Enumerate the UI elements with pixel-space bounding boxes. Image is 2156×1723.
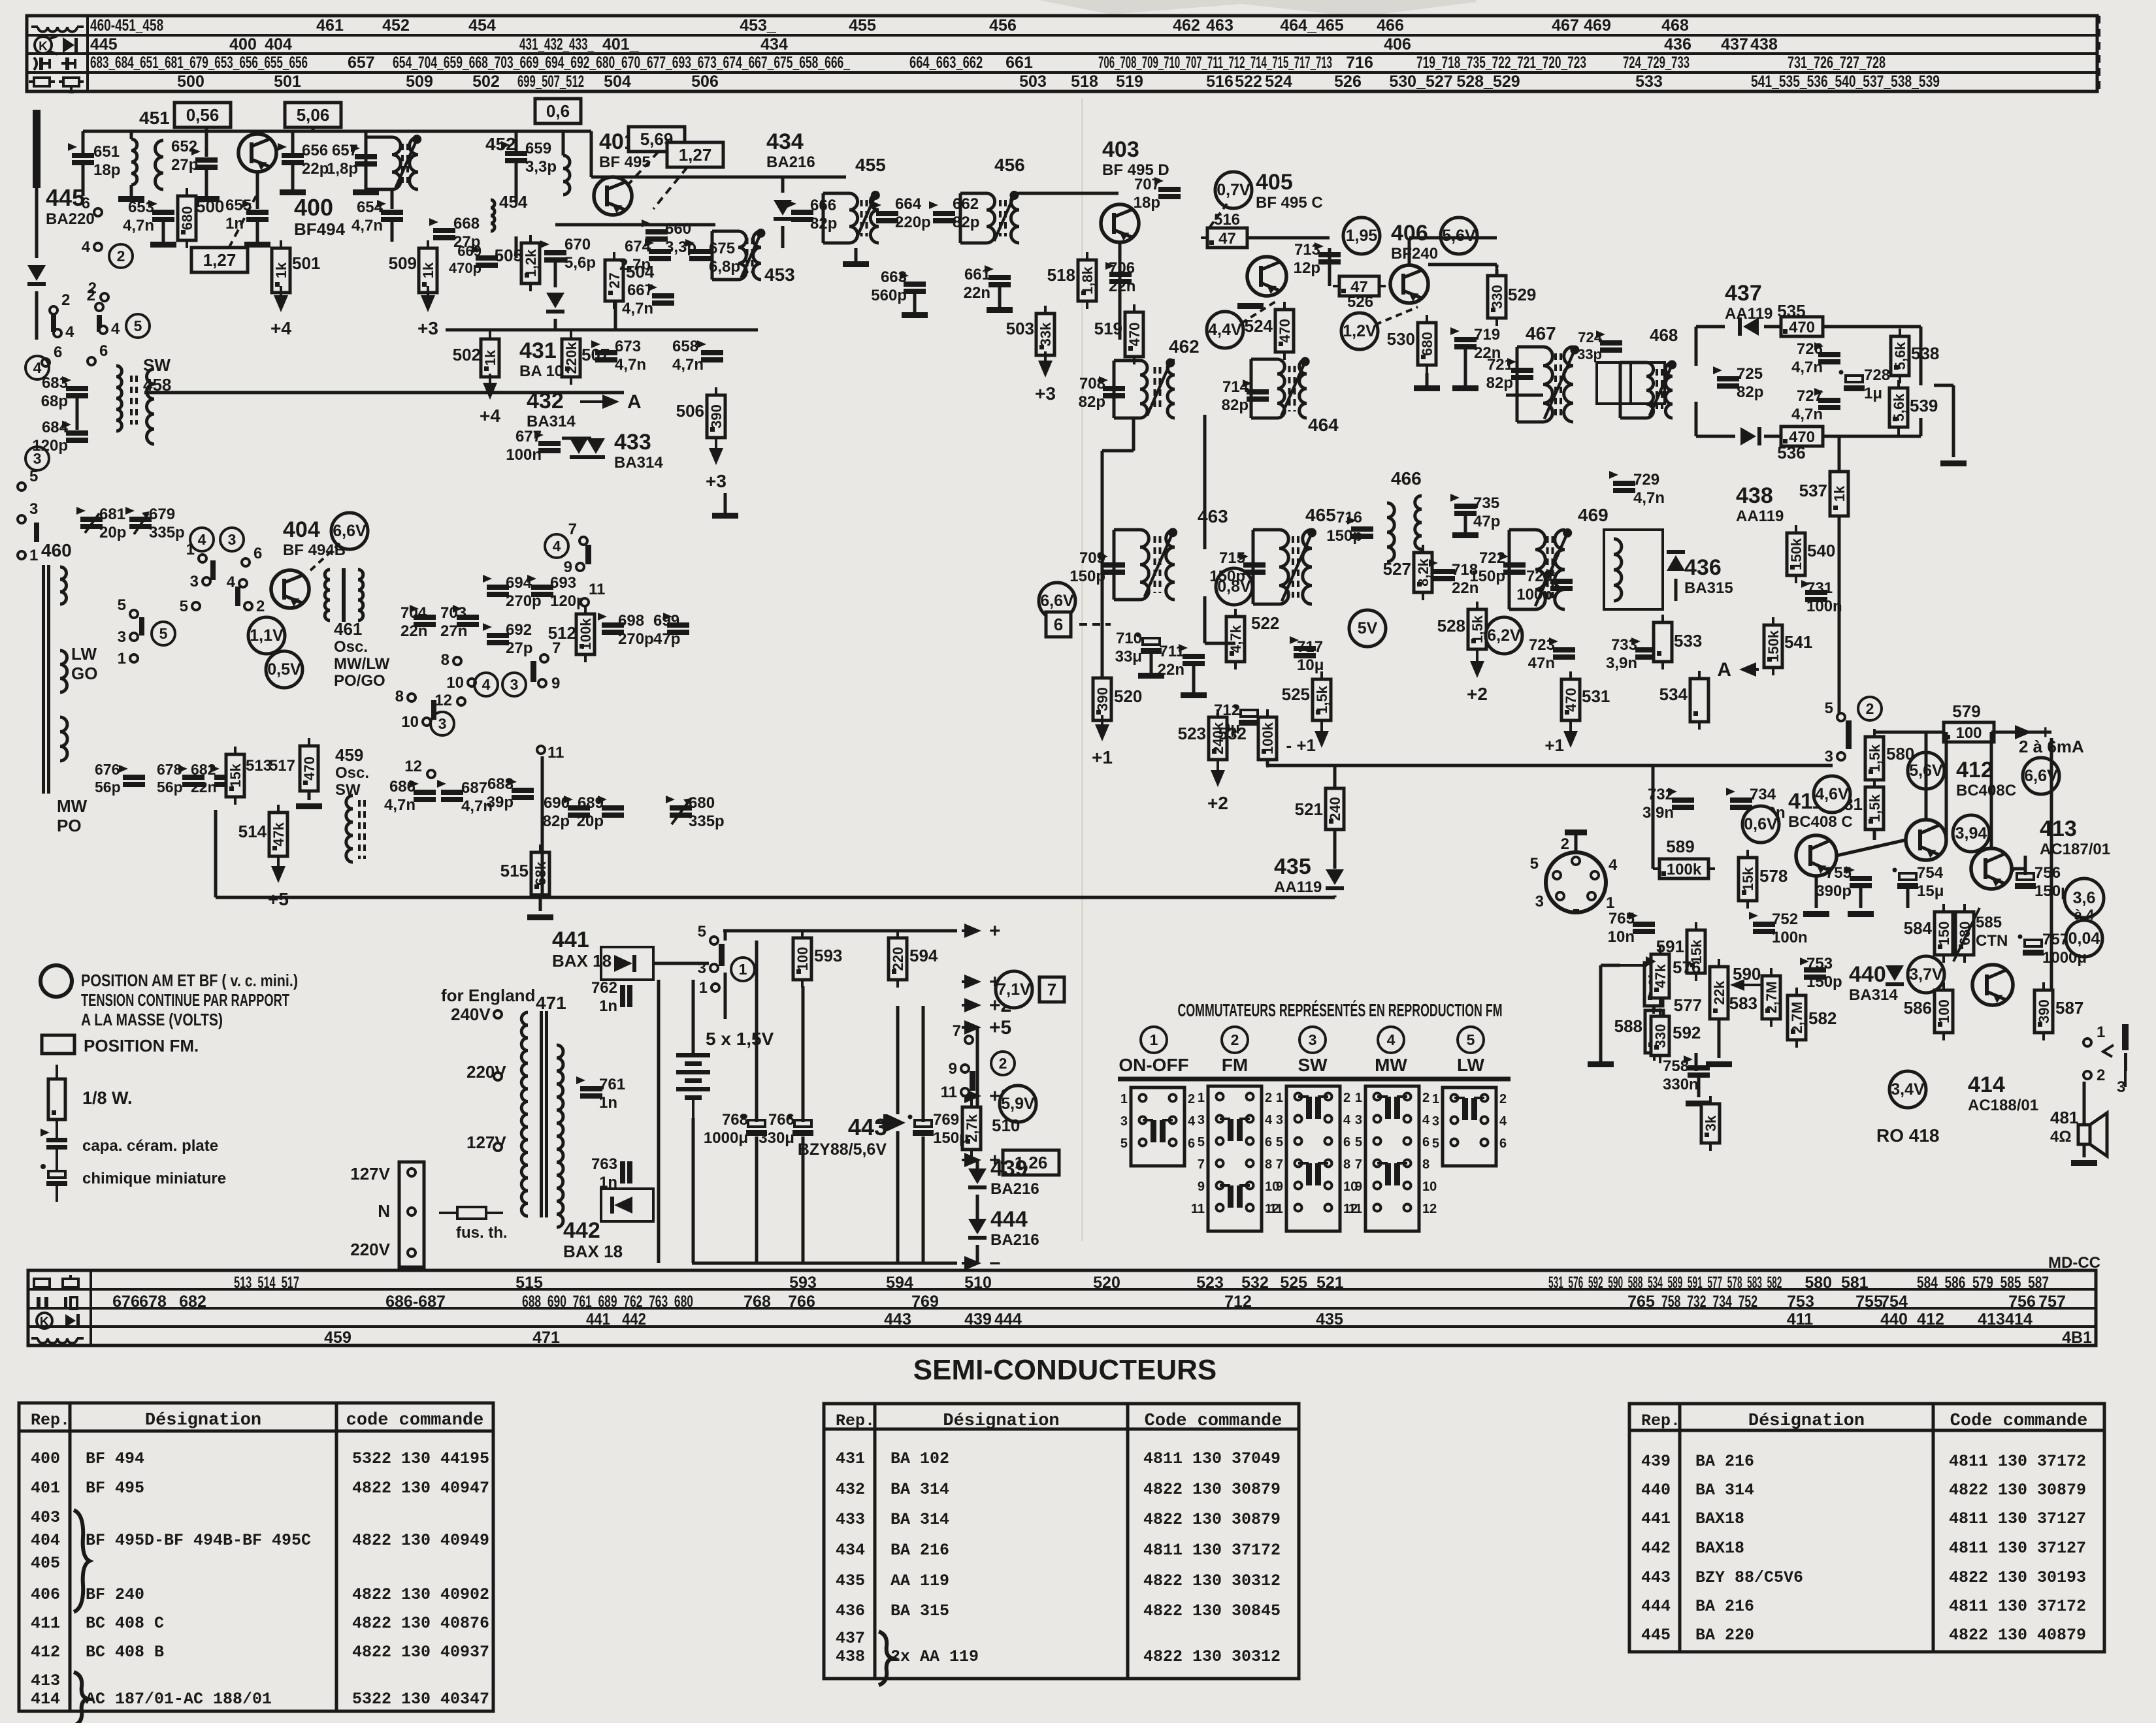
voltage 0,5V xyxy=(266,651,302,688)
svg-text:1: 1 xyxy=(739,961,747,978)
dashed 6,6V xyxy=(307,543,340,573)
svg-text:1: 1 xyxy=(1432,1092,1439,1106)
svg-text:406: 406 xyxy=(1384,35,1411,54)
capacitor 688 39p xyxy=(508,778,534,800)
svg-text:762: 762 xyxy=(591,979,617,997)
svg-text:4: 4 xyxy=(1609,856,1618,874)
contact bar 79 xyxy=(585,545,591,564)
svg-text:463: 463 xyxy=(1206,16,1233,35)
svg-text:578: 578 xyxy=(1759,866,1788,886)
contact 6 c xyxy=(88,342,108,365)
svg-text:668: 668 xyxy=(453,215,480,233)
wire xyxy=(82,131,85,153)
svg-text:513: 513 xyxy=(246,757,272,775)
contact 6 g xyxy=(242,545,262,566)
arrow +1 b xyxy=(1563,722,1578,748)
inductor 454 xyxy=(491,200,495,231)
wire xyxy=(539,895,542,911)
svg-text:1000μ: 1000μ xyxy=(704,1129,748,1147)
wire xyxy=(1994,731,2009,734)
svg-text:2x AA 119: 2x AA 119 xyxy=(890,1647,979,1666)
svg-text:3: 3 xyxy=(118,628,126,646)
svg-text:688: 688 xyxy=(487,775,514,793)
svg-text:707: 707 xyxy=(1134,176,1160,193)
svg-text:589: 589 xyxy=(1666,837,1694,856)
capacitor 666 82p xyxy=(787,200,813,222)
svg-text:COMMUTATEURS REPRÉSENTÉS EN: COMMUTATEURS REPRÉSENTÉS EN REPRODUCTION… xyxy=(1178,1000,1503,1020)
capacitor 710 33u xyxy=(1136,633,1162,654)
wire xyxy=(1718,1019,1721,1058)
inductor 458b xyxy=(147,369,154,444)
svg-text:726: 726 xyxy=(1797,340,1823,358)
svg-text:413: 413 xyxy=(2040,816,2077,841)
svg-text:BC408C: BC408C xyxy=(1956,782,2016,799)
svg-text:+3: +3 xyxy=(706,471,727,491)
contact 2 c xyxy=(87,287,103,311)
voltage 6,6V c xyxy=(2023,758,2059,794)
svg-text:3,4V: 3,4V xyxy=(1891,1080,1925,1099)
capacitor 707 18p xyxy=(1154,177,1181,199)
svg-text:3: 3 xyxy=(1535,893,1544,910)
svg-text:AA119: AA119 xyxy=(1274,878,1322,896)
svg-text:461: 461 xyxy=(316,16,344,35)
capacitor 663 560p xyxy=(900,272,926,294)
svg-text:436: 436 xyxy=(1684,555,1722,580)
svg-text:4: 4 xyxy=(198,531,206,548)
contact 1 f xyxy=(186,541,206,562)
contact bar pw2 xyxy=(970,1071,975,1091)
wire xyxy=(1695,1053,1698,1071)
ground 451 xyxy=(118,196,144,202)
svg-text:150: 150 xyxy=(1936,922,1952,946)
svg-text:MW: MW xyxy=(57,796,88,816)
legend circle xyxy=(41,965,72,997)
svg-text:270p: 270p xyxy=(618,630,654,648)
voltage 5,6V a xyxy=(1441,217,1477,254)
capacitor 687 4,7n xyxy=(437,780,463,802)
svg-text:3: 3 xyxy=(2117,1078,2125,1096)
contact 5 d xyxy=(18,468,38,491)
svg-text:724: 724 xyxy=(1578,329,1602,346)
transformer 455 xyxy=(823,191,880,243)
svg-text:579: 579 xyxy=(1952,701,1980,721)
svg-text:481: 481 xyxy=(2050,1108,2078,1127)
voltage 0,6V xyxy=(1742,806,1779,843)
circled 4 sw xyxy=(1378,1027,1404,1053)
resistor 533b 10k xyxy=(1654,615,1672,669)
svg-text:3: 3 xyxy=(1198,1113,1205,1127)
svg-text:501: 501 xyxy=(292,253,320,273)
svg-text:5: 5 xyxy=(118,596,126,614)
capacitor 727 4,7n xyxy=(1814,388,1840,410)
svg-text:593: 593 xyxy=(789,1274,817,1292)
svg-text:761: 761 xyxy=(599,1076,625,1093)
resistor 501 1k xyxy=(272,240,290,300)
circled 5 sw xyxy=(1458,1027,1484,1053)
svg-text:509: 509 xyxy=(406,72,433,91)
svg-text:766: 766 xyxy=(788,1293,815,1311)
svg-text:7: 7 xyxy=(1047,980,1056,999)
svg-text:756: 756 xyxy=(2008,1293,2036,1311)
resistor 516 47 xyxy=(1201,228,1254,248)
wire xyxy=(1838,436,1841,472)
core SW458 xyxy=(131,376,137,425)
svg-text:455: 455 xyxy=(849,16,876,35)
svg-text:436: 436 xyxy=(1664,35,1691,54)
capacitor 725 82p xyxy=(1713,366,1739,389)
svg-text:GO: GO xyxy=(71,664,97,683)
svg-text:5: 5 xyxy=(1276,1135,1283,1150)
svg-text:1,8k: 1,8k xyxy=(1079,266,1096,295)
svg-text:670: 670 xyxy=(564,236,591,253)
svg-text:390: 390 xyxy=(1094,687,1111,711)
svg-text:714: 714 xyxy=(1222,378,1249,396)
svg-text:4822 130 30879: 4822 130 30879 xyxy=(1949,1481,2086,1500)
svg-text:676: 676 xyxy=(95,761,120,778)
wire xyxy=(83,130,591,133)
voltage 1,1V xyxy=(248,617,285,654)
svg-text:502: 502 xyxy=(472,72,500,91)
resistor 532 100k xyxy=(1258,709,1277,767)
ground 755 xyxy=(1848,911,1874,917)
svg-text:462: 462 xyxy=(1173,16,1200,35)
svg-text:669: 669 xyxy=(457,243,482,259)
contact 3 f xyxy=(190,573,210,590)
svg-text:594: 594 xyxy=(886,1274,913,1292)
ground 517 xyxy=(296,803,322,809)
svg-text:1: 1 xyxy=(2097,1023,2105,1041)
wire xyxy=(1333,895,1337,897)
svg-text:2: 2 xyxy=(1422,1091,1429,1105)
svg-text:537: 537 xyxy=(1799,481,1827,500)
voltage 3,4V xyxy=(1889,1071,1926,1108)
svg-text:658: 658 xyxy=(672,338,698,355)
svg-text:470: 470 xyxy=(1789,319,1815,336)
svg-text:330μ: 330μ xyxy=(759,1129,794,1147)
svg-text:506: 506 xyxy=(691,72,719,91)
wire xyxy=(312,127,315,131)
svg-text:445: 445 xyxy=(90,35,118,54)
resistor 586 100 xyxy=(1935,982,1953,1040)
svg-text:434: 434 xyxy=(836,1541,865,1560)
contact 7 l xyxy=(540,639,561,662)
svg-text:Osc.: Osc. xyxy=(334,638,368,656)
measure 0,56 xyxy=(174,103,231,127)
capacitor 675 6,8p xyxy=(685,239,711,261)
svg-text:N: N xyxy=(378,1201,390,1221)
svg-text:2: 2 xyxy=(2097,1067,2105,1084)
svg-text:459: 459 xyxy=(335,745,363,765)
wire xyxy=(1823,325,1921,329)
ground 515 xyxy=(527,914,553,920)
brace 437-438 xyxy=(879,1632,892,1685)
svg-text:22n: 22n xyxy=(1109,278,1135,295)
svg-text:BA 216: BA 216 xyxy=(1695,1597,1754,1616)
icon tape b-row3 xyxy=(37,1313,80,1329)
svg-text:Désignation: Désignation xyxy=(1748,1411,1865,1431)
ground 455 xyxy=(843,261,869,267)
svg-text:533: 533 xyxy=(1674,631,1702,651)
svg-text:509: 509 xyxy=(389,253,417,273)
svg-text:10: 10 xyxy=(401,713,419,731)
svg-text:220p: 220p xyxy=(895,214,931,231)
capacitor 651 18p xyxy=(68,143,94,165)
wire xyxy=(1203,596,1207,643)
contact 5 e xyxy=(118,596,138,618)
svg-text:692: 692 xyxy=(506,621,532,639)
contact 2 xyxy=(88,280,108,301)
capacitor 712 10u xyxy=(1234,705,1260,726)
svg-text:4811 130 37172: 4811 130 37172 xyxy=(1949,1597,2086,1616)
svg-text:466: 466 xyxy=(1377,16,1404,35)
capacitor 659 3,3p xyxy=(501,141,527,163)
svg-text:3,94: 3,94 xyxy=(1955,824,1987,843)
svg-text:3: 3 xyxy=(1276,1113,1283,1127)
svg-text:11: 11 xyxy=(1348,1202,1362,1216)
svg-text:0,6V: 0,6V xyxy=(1744,815,1778,833)
svg-text:4: 4 xyxy=(1265,1113,1273,1127)
wire xyxy=(1150,653,1153,673)
svg-text:673: 673 xyxy=(615,338,641,355)
wire xyxy=(1599,965,1603,1061)
svg-text:+2: +2 xyxy=(1207,793,1228,813)
svg-text:FM: FM xyxy=(1222,1055,1248,1075)
svg-text:33p: 33p xyxy=(1577,346,1602,362)
resistor 503 33k xyxy=(1036,306,1054,363)
ground 437 xyxy=(1940,460,1967,466)
svg-text:+1: +1 xyxy=(1544,735,1564,755)
wire xyxy=(1333,765,1337,797)
svg-text:719_718_735_722_721_720_723: 719_718_735_722_721_720_723 xyxy=(1416,54,1586,72)
contact bar 810 xyxy=(431,700,436,720)
svg-text:464_465: 464_465 xyxy=(1280,16,1343,35)
wire xyxy=(1990,732,1993,848)
svg-text:MW: MW xyxy=(1375,1055,1407,1075)
wire xyxy=(755,941,759,1122)
svg-text:5V: 5V xyxy=(1358,619,1378,637)
svg-text:6,2V: 6,2V xyxy=(1487,626,1521,645)
circled 5 b xyxy=(152,622,175,645)
svg-text:519: 519 xyxy=(1116,72,1143,91)
svg-text:716: 716 xyxy=(1336,509,1362,526)
capacitor 723 47n xyxy=(1549,637,1575,660)
svg-text:710: 710 xyxy=(1116,630,1142,647)
svg-text:716: 716 xyxy=(1346,54,1373,72)
svg-text:22k: 22k xyxy=(1711,980,1727,1005)
ground 653 xyxy=(150,242,176,248)
arrow +4 c xyxy=(962,1150,1012,1171)
capacitor 708 82p xyxy=(1099,376,1125,398)
switch 5 LW xyxy=(1432,1087,1507,1166)
svg-text:656: 656 xyxy=(302,142,328,159)
varcap 681 20p xyxy=(0,0,1,1)
contact 4 xyxy=(82,238,102,256)
resistor 537 1k xyxy=(1830,464,1848,524)
svg-text:763: 763 xyxy=(591,1155,617,1173)
svg-text:723: 723 xyxy=(1529,636,1555,654)
dashed 401 xyxy=(629,152,687,209)
svg-text:462: 462 xyxy=(1169,336,1200,357)
wire xyxy=(391,189,394,209)
svg-text:431_432_433_: 431_432_433_ xyxy=(519,35,595,54)
svg-text:468: 468 xyxy=(1650,325,1678,345)
fuse fus.th. xyxy=(439,1207,503,1219)
wire xyxy=(1925,732,1928,820)
diode 435 AA119 xyxy=(1326,869,1344,890)
svg-text:LW: LW xyxy=(1457,1055,1485,1075)
measure 5,69 xyxy=(629,127,685,152)
inductor LW xyxy=(60,651,67,692)
resistor 593 100 xyxy=(793,930,811,988)
contact 10 h xyxy=(446,674,476,692)
resistor 529 330 xyxy=(1488,268,1506,326)
svg-text:150p: 150p xyxy=(1070,568,1105,585)
svg-text:437: 437 xyxy=(1721,35,1748,54)
resistor 504 27 xyxy=(605,252,623,309)
wire xyxy=(365,131,368,154)
svg-text:RO 418: RO 418 xyxy=(1876,1125,1940,1146)
contact m1 xyxy=(408,1168,416,1176)
diode 433 BA314 xyxy=(587,438,605,459)
svg-text:560p: 560p xyxy=(871,287,907,304)
arrow +2 c xyxy=(962,995,1011,1016)
ctn slash xyxy=(1953,908,1980,961)
svg-text:682: 682 xyxy=(191,761,216,778)
circled 2 af xyxy=(1858,697,1882,720)
svg-text:Désignation: Désignation xyxy=(145,1411,261,1430)
inductor 459 xyxy=(346,796,353,862)
svg-text:2,7M: 2,7M xyxy=(1789,1002,1805,1034)
resistor 536 470 xyxy=(1774,427,1829,446)
voltage 3,6-4 xyxy=(2065,878,2104,918)
svg-text:720: 720 xyxy=(1526,568,1552,585)
wire xyxy=(614,302,617,330)
varcap arrow 679 xyxy=(134,511,150,534)
svg-text:460: 460 xyxy=(41,540,72,560)
svg-text:592: 592 xyxy=(1673,1023,1701,1042)
svg-text:439: 439 xyxy=(990,1156,1028,1181)
svg-text:653: 653 xyxy=(128,199,154,216)
resistor 531 470 xyxy=(1561,671,1580,728)
svg-text:A LA MASSE (VOLTS): A LA MASSE (VOLTS) xyxy=(81,1010,223,1029)
wire xyxy=(515,131,518,151)
svg-text:12p: 12p xyxy=(1294,259,1320,277)
svg-text:8: 8 xyxy=(1422,1157,1429,1172)
svg-text:471: 471 xyxy=(532,1328,560,1347)
core 459 xyxy=(359,800,365,859)
svg-text:654_704_659_668_703_669_694_69: 654_704_659_668_703_669_694_692_680_670_… xyxy=(393,54,851,72)
capacitor 762 1n xyxy=(620,985,632,1007)
wire xyxy=(562,131,565,155)
svg-text:1,27: 1,27 xyxy=(203,250,237,270)
svg-text:47k: 47k xyxy=(270,822,287,846)
arrow -+1 xyxy=(1315,722,1329,748)
svg-text:6: 6 xyxy=(1188,1136,1195,1151)
contact 5 f xyxy=(180,598,200,615)
svg-text:4811 130 37172: 4811 130 37172 xyxy=(1949,1452,2086,1471)
icon plug row4 xyxy=(29,78,84,93)
svg-text:BAX18: BAX18 xyxy=(1695,1509,1744,1528)
svg-text:3: 3 xyxy=(29,500,38,518)
svg-text:1k: 1k xyxy=(1831,485,1848,502)
svg-text:BA216: BA216 xyxy=(766,153,815,171)
svg-text:5: 5 xyxy=(29,468,38,485)
capacitor 664 220p xyxy=(872,201,898,223)
svg-text:1k: 1k xyxy=(482,349,498,366)
bottom index table frame xyxy=(28,1270,2096,1345)
svg-text:699: 699 xyxy=(653,612,679,630)
svg-text:510: 510 xyxy=(992,1116,1020,1135)
wire xyxy=(1837,840,1906,856)
svg-text:4: 4 xyxy=(1188,1114,1196,1129)
ground 652 xyxy=(193,196,220,202)
svg-text:445: 445 xyxy=(1641,1626,1671,1645)
svg-text:524: 524 xyxy=(1245,316,1273,336)
svg-text:576: 576 xyxy=(1673,958,1701,977)
svg-text:467: 467 xyxy=(1526,323,1556,344)
diode 444 BA216 xyxy=(968,1219,987,1240)
svg-text:11: 11 xyxy=(1191,1202,1205,1216)
svg-text:BF494: BF494 xyxy=(294,219,346,239)
wire xyxy=(391,222,394,242)
svg-text:1: 1 xyxy=(1606,894,1614,912)
svg-text:335p: 335p xyxy=(689,813,725,830)
contact bar 13 xyxy=(34,523,39,542)
svg-text:100n: 100n xyxy=(506,446,542,464)
svg-text:712: 712 xyxy=(1224,1293,1252,1311)
svg-text:18p: 18p xyxy=(1134,194,1160,212)
voltage 0,7V xyxy=(1215,172,1252,208)
svg-text:+2: +2 xyxy=(1467,684,1488,704)
resistor 526 47 xyxy=(1333,276,1386,296)
contact 9 k xyxy=(564,558,584,576)
measure 1,27 xyxy=(191,248,248,272)
svg-text:687: 687 xyxy=(461,779,487,797)
ground 530 xyxy=(1414,385,1440,391)
svg-text:470: 470 xyxy=(1563,688,1579,712)
arrow +4 b xyxy=(480,374,500,426)
svg-text:5,6p: 5,6p xyxy=(564,254,596,272)
svg-text:724_729_733: 724_729_733 xyxy=(1623,54,1690,72)
svg-text:5: 5 xyxy=(1530,855,1539,873)
wire xyxy=(130,185,133,196)
svg-text:683_684_651_681_679_653_656_65: 683_684_651_681_679_653_656_655_656 xyxy=(90,54,308,72)
svg-text:531: 531 xyxy=(1582,686,1610,706)
ground 735 xyxy=(1452,532,1478,538)
svg-text:A: A xyxy=(627,391,642,413)
svg-text:390: 390 xyxy=(708,404,725,428)
svg-text:1: 1 xyxy=(118,650,126,668)
svg-text:15k: 15k xyxy=(1740,867,1756,891)
coil 716 xyxy=(1387,503,1394,562)
svg-text:503: 503 xyxy=(1019,72,1047,91)
svg-text:8: 8 xyxy=(1265,1157,1272,1172)
wire xyxy=(1192,666,1196,692)
resistor 594 220 xyxy=(889,930,907,988)
svg-text:9: 9 xyxy=(1276,1180,1283,1194)
svg-text:467: 467 xyxy=(1552,16,1579,35)
svg-text:515: 515 xyxy=(515,1274,543,1292)
wire xyxy=(1119,242,1122,340)
svg-text:1,5k: 1,5k xyxy=(1867,794,1883,822)
contact 127V xyxy=(494,1143,502,1151)
capacitor 756 150u xyxy=(2010,868,2036,890)
svg-text:662: 662 xyxy=(953,195,979,213)
svg-text:652: 652 xyxy=(171,138,197,155)
svg-text:47: 47 xyxy=(1218,230,1236,248)
capacitor 731 100n xyxy=(1801,580,1827,602)
svg-text:4822 130 40937: 4822 130 40937 xyxy=(352,1643,489,1662)
